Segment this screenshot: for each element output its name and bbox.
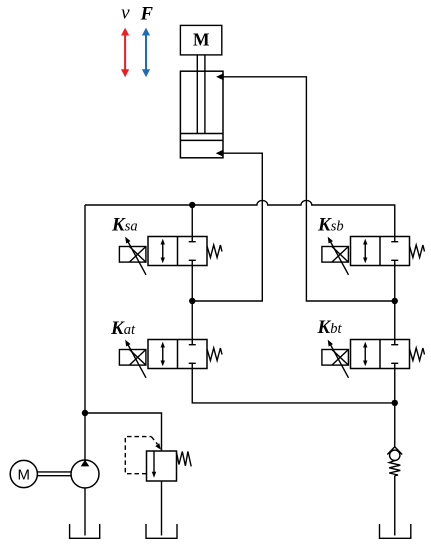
supply bus P with crossover hops, down to Ksb top port	[85, 200, 395, 236]
wire: pump pressure riser	[84, 205, 86, 460]
check valve ball	[390, 450, 400, 460]
force arrow F (blue double-headed)	[142, 28, 150, 78]
valve Kbt bottom port wire	[394, 369, 396, 403]
electric motor M1	[10, 460, 37, 487]
svg-text:M: M	[18, 466, 31, 483]
valve Ksb bottom port wire	[394, 266, 396, 302]
valve Ksa body	[148, 237, 207, 266]
hydraulic pump	[71, 460, 99, 488]
tank T2	[146, 524, 177, 538]
valve Ksa blocked ports	[189, 237, 196, 266]
cylinder barrel	[180, 71, 223, 158]
relief valve body	[147, 451, 177, 481]
valve Ksa flow arrow	[161, 239, 165, 263]
check valve seat	[387, 447, 402, 455]
svg-text:v: v	[121, 3, 130, 24]
check valve spring	[389, 461, 400, 476]
relief valve pilot line (dashed)	[125, 437, 161, 474]
valve Kat body	[148, 340, 207, 369]
mass M	[180, 25, 221, 55]
svg-text:Kbt: Kbt	[317, 317, 343, 338]
valve Kbt proportional solenoid	[322, 340, 349, 378]
valve Ksb flow arrow	[363, 239, 367, 263]
wire: relief valve outlet to tank T2	[161, 481, 163, 536]
velocity arrow v (red double-headed)	[121, 28, 129, 78]
node A junction (Ksa bottom / Kat top / cyl B)	[189, 298, 195, 304]
cylinder port A arrowhead	[216, 73, 224, 80]
valve Ksb spring	[410, 245, 425, 258]
valve Kat bottom port wire to return node	[192, 369, 395, 403]
valve Ksa bottom port wire	[191, 266, 193, 302]
valve Kat proportional solenoid	[119, 340, 146, 378]
wire: check valve to tank T3	[394, 476, 396, 536]
valve Ksa spring	[207, 245, 222, 258]
valve Ksa proportional solenoid	[119, 237, 146, 275]
piston	[180, 134, 223, 141]
node B junction (Ksb bottom / Kbt top / cyl A)	[392, 298, 398, 304]
valve Ksb body	[351, 237, 410, 266]
return node junction (Kat/Kbt bottom / check valve)	[392, 400, 398, 406]
cylinder port B arrowhead	[216, 150, 224, 157]
relief valve flow arrow	[152, 452, 156, 478]
valve Kat blocked ports	[189, 340, 196, 369]
svg-text:Ksb: Ksb	[317, 215, 344, 236]
tank T1	[70, 524, 100, 538]
wire: cylinder port B to node A	[192, 153, 262, 301]
wire: cylinder port A to node B	[222, 77, 395, 301]
wire: relief branch	[85, 413, 162, 451]
valve Ksb proportional solenoid	[322, 237, 349, 275]
motor-pump shaft	[37, 472, 71, 476]
valve Kbt top port wire	[394, 301, 396, 340]
svg-text:F: F	[140, 5, 154, 25]
valve Kat top port wire	[191, 301, 193, 340]
junction: riser / relief branch	[82, 410, 88, 416]
relief valve spring	[177, 452, 192, 467]
tank T3	[380, 524, 411, 538]
valve Kbt body	[351, 340, 410, 369]
piston rod	[197, 55, 205, 134]
junction: bus / Ksa top	[189, 202, 195, 208]
svg-text:M: M	[193, 30, 210, 50]
valve Kbt spring	[410, 348, 425, 361]
valve Kbt blocked ports	[391, 340, 398, 369]
svg-text:Ksa: Ksa	[111, 215, 138, 236]
valve Kat flow arrow	[161, 342, 165, 366]
wire: pump suction to tank T1	[84, 488, 86, 536]
svg-text:Kat: Kat	[110, 318, 136, 339]
wire: return node to check valve	[394, 403, 396, 447]
valve Ksb blocked ports	[391, 237, 398, 266]
valve Kat spring	[207, 348, 222, 361]
valve Ksa top port wire	[191, 205, 193, 237]
valve Kbt flow arrow	[363, 342, 367, 366]
